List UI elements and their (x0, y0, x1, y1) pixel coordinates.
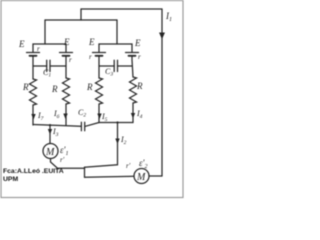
wire left branch 1 (32, 56, 34, 79)
svg-text:r: r (37, 45, 40, 53)
wire I7 drop (32, 105, 34, 125)
wire left feed (44, 20, 46, 44)
battery E r (left group, left) (27, 53, 40, 56)
svg-text:C3: C3 (105, 67, 113, 78)
wire motor1 bottom step (51, 159, 85, 169)
wire left branch 2 (65, 56, 67, 78)
svg-text:r′: r′ (126, 162, 131, 170)
junction node A (49, 124, 51, 126)
wire right bracket (99, 44, 132, 52)
svg-text:r′: r′ (60, 156, 65, 164)
wire right vertical (161, 9, 163, 176)
svg-text:E: E (63, 37, 70, 47)
junction node B (116, 121, 118, 123)
svg-text:r: r (89, 53, 92, 61)
wire bottom to motor 2 (85, 175, 135, 178)
arrow I6 (63, 114, 67, 120)
svg-text:R: R (51, 84, 58, 94)
capacitor C1 (33, 60, 66, 71)
svg-text:I3: I3 (52, 127, 59, 138)
arrow I7 (31, 114, 35, 120)
arrow I1 (160, 27, 164, 38)
svg-text:Fca:A.LLeó .EUITA: Fca:A.LLeó .EUITA (3, 168, 64, 175)
wire top (81, 8, 162, 10)
wire right branch 1 (98, 56, 100, 78)
svg-text:I5: I5 (101, 112, 108, 123)
border frame (1, 1, 183, 198)
wire right feed (116, 20, 118, 44)
svg-text:E: E (88, 37, 95, 47)
arrow I2 (115, 139, 119, 145)
arrow I3 (48, 129, 52, 135)
svg-text:E: E (18, 39, 25, 49)
svg-text:R: R (136, 81, 143, 91)
motor M2 circle (134, 169, 149, 184)
wire left bracket (33, 44, 66, 52)
resistor R (right group, right) (130, 77, 137, 103)
svg-text:C2: C2 (78, 108, 86, 119)
svg-text:I4: I4 (136, 109, 143, 120)
svg-text:R: R (22, 82, 29, 92)
wire I4 drop (132, 103, 134, 123)
wire top drop (80, 9, 82, 20)
svg-text:I1: I1 (165, 11, 172, 23)
svg-text:I6: I6 (53, 109, 60, 120)
resistor R (left group, left) (30, 79, 37, 105)
wire I5 drop (98, 104, 100, 123)
svg-text:R: R (86, 82, 93, 92)
arrow I4 (131, 113, 135, 119)
svg-text:E: E (134, 38, 141, 48)
svg-text:r: r (138, 53, 141, 61)
wire right branch 2 (132, 56, 133, 77)
resistor R (left group, right) (63, 78, 70, 104)
svg-text:M: M (45, 147, 55, 158)
wire motor2 to right vertical (149, 175, 162, 177)
svg-text:I2: I2 (120, 135, 127, 146)
wire right bottom (99, 122, 133, 124)
resistor R (right group, left) (96, 78, 103, 104)
svg-text:I7: I7 (37, 111, 44, 122)
wire mid bus (45, 19, 117, 21)
motor M1 circle (43, 144, 58, 159)
capacitor C3 (99, 60, 132, 71)
battery E r (right group, left) (93, 53, 106, 56)
wire C2 to right group (85, 123, 99, 127)
capacitor C2 (81, 122, 84, 131)
battery E r (right group, right) (126, 53, 139, 56)
svg-text:UPM: UPM (3, 176, 18, 183)
svg-text:r: r (69, 56, 72, 64)
wire left bottom (33, 125, 81, 127)
battery E r (left group, right) (60, 53, 73, 56)
wire step connector (84, 167, 86, 177)
wire I2 drop and return (85, 123, 118, 168)
arrow I5 (97, 114, 101, 120)
wire I3 drop to motor 1 (49, 125, 51, 144)
svg-text:M: M (136, 172, 146, 183)
wire I6 drop (65, 104, 67, 125)
